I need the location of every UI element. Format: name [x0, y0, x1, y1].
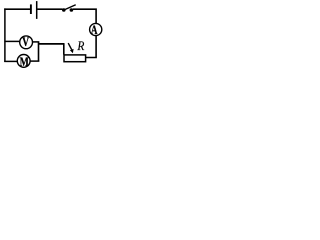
battery cell: long plate (positive) [36, 1, 38, 19]
switch lever (open) [65, 5, 76, 10]
svg-text:A: A [91, 22, 98, 37]
wire voltmeter to junction [32, 41, 39, 43]
wire bottom-left to motor [4, 60, 17, 62]
wire ammeter down to bottom-right corner [86, 36, 97, 58]
wire battery to switch [37, 8, 62, 10]
feed wire junction to rheostat [39, 43, 65, 45]
voltmeter V circle [20, 36, 33, 49]
battery cell: short plate (negative) [30, 4, 32, 14]
switch S: left terminal dot [62, 8, 66, 12]
ammeter A circle [90, 23, 102, 35]
motor M circle [17, 55, 30, 68]
junction vertical (V/M join) [38, 42, 40, 62]
wire motor to junction [30, 60, 39, 62]
svg-text:M: M [20, 54, 29, 69]
switch S: right terminal dot [70, 8, 74, 12]
svg-text:V: V [22, 35, 29, 49]
wire left to voltmeter [4, 40, 19, 42]
background [0, 0, 105, 72]
wire switch to top-right corner [73, 8, 96, 23]
wire left vertical [4, 8, 6, 62]
rheostat left lead (down from feed wire) [63, 44, 65, 55]
svg-text:R: R [77, 38, 85, 53]
rheostat slider arrow [68, 43, 72, 50]
wire top-left horizontal [4, 8, 30, 10]
rheostat R body [64, 55, 86, 62]
